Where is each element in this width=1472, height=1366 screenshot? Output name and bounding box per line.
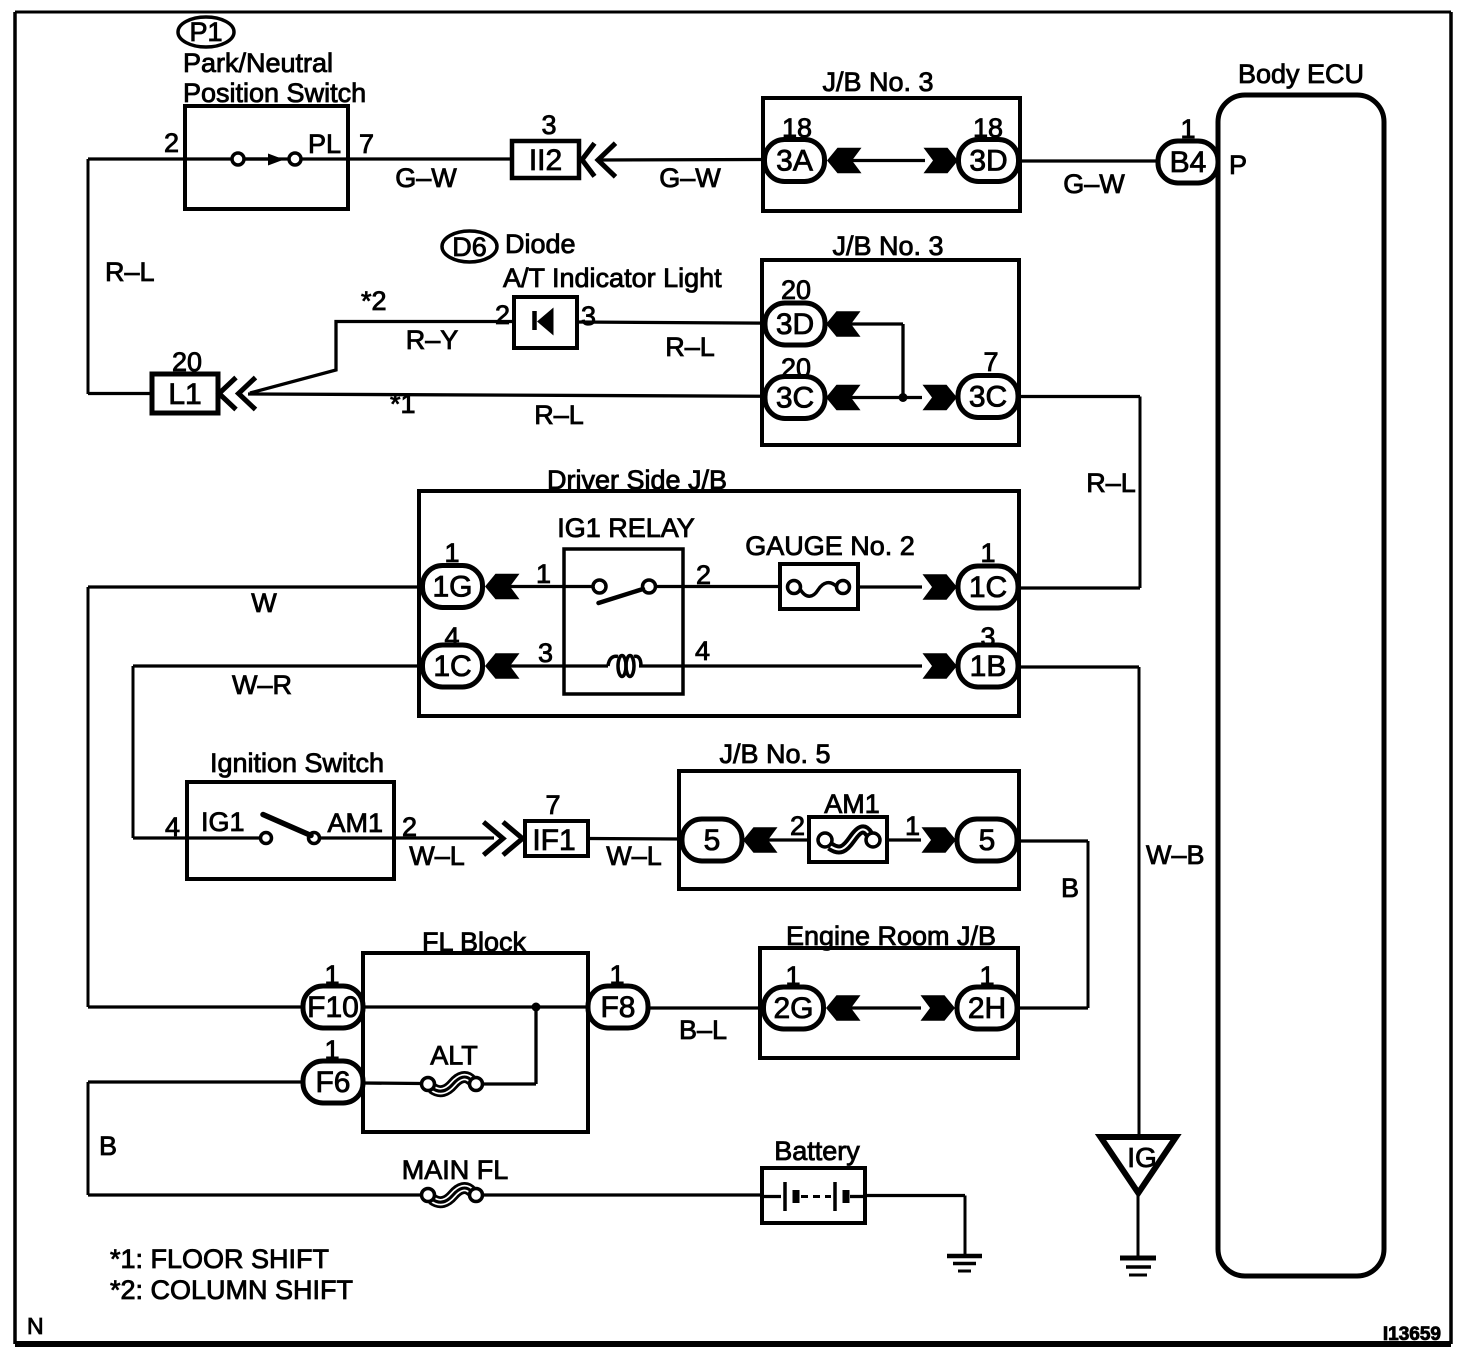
svg-text:W: W [251,588,277,618]
svg-text:1: 1 [609,960,624,990]
svg-text:3A: 3A [776,145,813,178]
svg-text:B: B [99,1131,117,1161]
svg-text:F8: F8 [600,991,635,1024]
svg-text:1: 1 [785,961,800,991]
svg-text:Diode: Diode [505,229,576,259]
svg-text:1: 1 [905,811,920,841]
svg-text:1: 1 [980,538,995,568]
svg-text:Driver Side J/B: Driver Side J/B [547,465,727,495]
svg-text:1C: 1C [969,571,1007,604]
svg-text:2G: 2G [773,992,813,1025]
svg-text:2H: 2H [968,992,1006,1025]
svg-text:G–W: G–W [659,163,721,193]
svg-text:R–L: R–L [105,257,155,287]
svg-text:7: 7 [359,129,374,159]
svg-text:AM1: AM1 [824,789,880,819]
svg-text:J/B No. 3: J/B No. 3 [832,231,943,261]
svg-text:F10: F10 [307,991,359,1024]
svg-text:P: P [1229,150,1247,180]
svg-text:B: B [1061,873,1079,903]
svg-text:J/B No. 5: J/B No. 5 [719,739,830,769]
svg-text:20: 20 [172,347,202,377]
svg-text:1: 1 [1180,114,1195,144]
svg-text:3C: 3C [969,381,1007,414]
svg-text:*1: *1 [390,389,416,419]
svg-text:G–W: G–W [395,163,457,193]
svg-text:3D: 3D [969,145,1007,178]
svg-text:18: 18 [973,113,1003,143]
svg-text:7: 7 [983,347,998,377]
svg-text:D6: D6 [452,232,487,262]
svg-text:1: 1 [324,1035,339,1065]
svg-text:IG1 RELAY: IG1 RELAY [557,513,695,543]
svg-text:2: 2 [790,811,805,841]
svg-text:3: 3 [581,301,596,331]
svg-text:W–R: W–R [232,670,292,700]
svg-text:3: 3 [538,638,553,668]
svg-text:B4: B4 [1170,146,1207,179]
svg-text:PL: PL [308,129,341,159]
svg-text:R–L: R–L [1086,468,1136,498]
svg-text:MAIN FL: MAIN FL [402,1155,509,1185]
svg-text:GAUGE No. 2: GAUGE No. 2 [745,531,915,561]
svg-text:FL Block: FL Block [422,927,527,957]
svg-text:*2: COLUMN SHIFT: *2: COLUMN SHIFT [110,1275,353,1305]
svg-text:W–B: W–B [1146,840,1205,870]
svg-text:P1: P1 [189,17,222,47]
svg-text:W–L: W–L [409,841,465,871]
svg-text:3: 3 [541,110,556,140]
svg-text:1: 1 [444,538,459,568]
svg-text:IF1: IF1 [532,824,575,857]
svg-text:Position Switch: Position Switch [183,78,366,108]
svg-text:IG1: IG1 [201,807,245,837]
svg-text:G–W: G–W [1063,169,1125,199]
svg-text:1G: 1G [432,571,472,604]
svg-text:IG: IG [1127,1142,1157,1173]
svg-text:2: 2 [402,812,417,842]
svg-text:N: N [27,1313,44,1339]
svg-text:4: 4 [695,636,710,666]
svg-text:II2: II2 [529,144,562,177]
svg-text:Battery: Battery [774,1136,860,1166]
svg-text:3: 3 [980,622,995,652]
svg-text:20: 20 [781,353,811,383]
svg-text:*1: FLOOR SHIFT: *1: FLOOR SHIFT [110,1244,329,1274]
svg-text:1: 1 [536,559,551,589]
svg-text:4: 4 [165,812,180,842]
svg-text:1: 1 [324,960,339,990]
svg-text:1B: 1B [970,650,1007,683]
svg-text:L1: L1 [168,378,201,411]
svg-text:AM1: AM1 [327,808,383,838]
svg-text:20: 20 [781,275,811,305]
svg-text:3C: 3C [776,382,814,415]
svg-text:A/T Indicator Light: A/T Indicator Light [503,263,722,293]
svg-text:18: 18 [782,113,812,143]
svg-text:R–L: R–L [665,332,715,362]
svg-text:Ignition Switch: Ignition Switch [210,748,384,778]
svg-text:2: 2 [696,560,711,590]
svg-text:5: 5 [704,824,721,857]
svg-text:B–L: B–L [679,1015,727,1045]
svg-text:*2: *2 [361,286,387,316]
svg-text:1C: 1C [433,650,471,683]
svg-text:Body ECU: Body ECU [1238,59,1364,89]
svg-text:R–Y: R–Y [406,325,459,355]
svg-text:I13659: I13659 [1383,1324,1441,1345]
svg-text:7: 7 [545,790,560,820]
svg-text:W–L: W–L [606,841,662,871]
svg-text:F6: F6 [315,1066,350,1099]
svg-text:2: 2 [495,300,510,330]
svg-text:2: 2 [164,128,179,158]
svg-text:4: 4 [444,622,459,652]
svg-text:1: 1 [979,961,994,991]
svg-text:ALT: ALT [430,1041,478,1071]
svg-text:3D: 3D [776,308,814,341]
svg-text:Engine Room J/B: Engine Room J/B [786,921,996,951]
svg-text:Park/Neutral: Park/Neutral [183,48,333,78]
svg-text:5: 5 [979,824,996,857]
svg-text:J/B No. 3: J/B No. 3 [822,67,933,97]
svg-text:R–L: R–L [534,400,584,430]
